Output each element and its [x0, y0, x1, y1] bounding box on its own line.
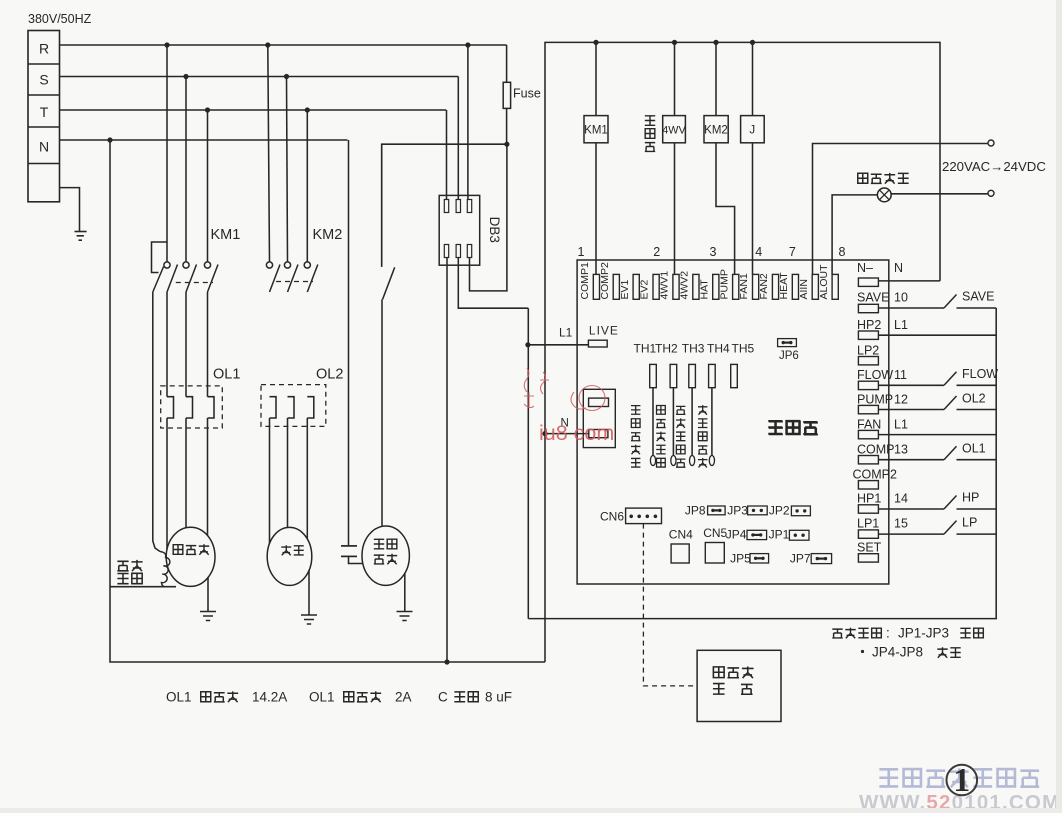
wire phase R [60, 42, 507, 47]
junction dot bottom rail [444, 659, 449, 664]
terminal LP2 row [857, 344, 879, 365]
svg-text:12: 12 [894, 393, 908, 407]
svg-text:15: 15 [894, 517, 908, 531]
svg-text:11: 11 [894, 368, 907, 382]
svg-text:7: 7 [789, 245, 796, 259]
board title 主控板 [768, 421, 817, 434]
jumper JP1 [769, 528, 809, 542]
wire N to capacitor [348, 140, 350, 546]
junction LIVE tap [525, 342, 530, 347]
fuse Fuse [503, 45, 541, 144]
svg-text:LP1: LP1 [857, 517, 879, 531]
svg-text:14: 14 [894, 492, 908, 506]
svg-text:T: T [40, 104, 49, 120]
watermark bottom right (site name) [879, 768, 1039, 787]
wire N top rail and enclosure left [545, 42, 940, 662]
svg-text:JP8: JP8 [685, 504, 706, 518]
ground fan [397, 573, 413, 621]
contactor KM1 main contacts [164, 262, 218, 292]
svg-text:HP1: HP1 [857, 492, 881, 506]
svg-text:4: 4 [755, 245, 762, 259]
jumper JP5 [730, 552, 769, 566]
sensor labels (return water / outlet water / return air / defrost) [631, 405, 707, 467]
svg-text:S: S [39, 72, 48, 88]
wire DB3 mid pin to L1 line [458, 258, 528, 309]
junction dots coil feeds [593, 40, 755, 45]
svg-text:OL1: OL1 [309, 690, 335, 705]
svg-text:JP2: JP2 [769, 504, 790, 518]
connector CN5 [703, 526, 727, 563]
fan switch contact [382, 144, 395, 526]
wire oil-heater branch down [153, 292, 160, 552]
terminal PUMP row [857, 392, 996, 414]
jumper JP2 [769, 504, 811, 518]
svg-text:COMP2: COMP2 [853, 468, 898, 482]
main control board box [577, 260, 889, 584]
svg-text:FAN: FAN [857, 418, 881, 432]
motor compressor [166, 527, 215, 586]
four-way valve label (vertical) [645, 116, 655, 152]
relay coil KM1 [584, 42, 608, 274]
wire DB3 left pin to N rail [446, 258, 448, 663]
wire S to DB3 pin [457, 77, 459, 200]
svg-text:10: 10 [894, 291, 908, 305]
wire phase S [60, 74, 459, 79]
overload relay OL1 [161, 386, 223, 428]
motor water pump [267, 527, 312, 585]
terminal LIVE [528, 324, 619, 348]
svg-text:N–: N– [857, 261, 873, 275]
svg-text:3: 3 [710, 245, 717, 259]
alarm lamp circuit [832, 188, 994, 274]
svg-text:SAVE: SAVE [857, 291, 889, 305]
jumper JP4 [726, 528, 767, 542]
alarm label [858, 173, 909, 184]
svg-text:LP: LP [962, 516, 977, 530]
relay coil 4WV [662, 42, 686, 274]
svg-text:OL1: OL1 [213, 367, 240, 383]
remote controller link (dashed) [643, 524, 697, 686]
svg-text:COMP2: COMP2 [599, 262, 611, 300]
svg-text:COMP: COMP [857, 443, 895, 457]
svg-text:EV1: EV1 [619, 279, 631, 299]
jumper settings note line2 [861, 645, 961, 660]
svg-text:OL1: OL1 [962, 442, 986, 456]
svg-text:JP4: JP4 [726, 528, 747, 542]
motor condenser fan [362, 526, 409, 585]
wire R to DB3 pin [467, 45, 469, 200]
svg-text:L1: L1 [894, 418, 908, 432]
svg-text:8 uF: 8 uF [485, 690, 512, 705]
relay coil J [741, 42, 765, 274]
watermark URL [859, 791, 1060, 813]
terminal HP2 row [857, 318, 996, 339]
svg-text:CN4: CN4 [669, 528, 693, 542]
jumper JP3 [727, 504, 767, 518]
svg-text:L1: L1 [559, 326, 573, 340]
svg-text:FLOW: FLOW [857, 368, 893, 382]
svg-text:CN6: CN6 [600, 510, 624, 524]
sensor terminals TH1-TH5 [634, 342, 755, 466]
svg-text:N: N [39, 139, 49, 155]
relay coil KM2 [704, 42, 735, 274]
svg-text:CN5: CN5 [703, 526, 727, 540]
svg-text:N: N [894, 261, 903, 275]
svg-text:TH1: TH1 [634, 342, 657, 356]
svg-text:OL2: OL2 [962, 392, 986, 406]
jumper settings note line1 [832, 626, 983, 641]
terminal N– row [857, 261, 940, 286]
wire fuse node to fan switch [382, 144, 507, 267]
overload relay OL2 [261, 385, 326, 427]
svg-text:TH2: TH2 [655, 342, 678, 356]
svg-text:2: 2 [653, 245, 660, 259]
svg-text:TH4: TH4 [707, 342, 730, 356]
svg-text:14.2A: 14.2A [252, 690, 287, 705]
wire N left rail down [110, 140, 545, 662]
svg-text:COMP1: COMP1 [579, 262, 591, 300]
terminal HP1 row [857, 491, 996, 514]
svg-text:KM1: KM1 [211, 227, 241, 243]
wire S to KM2 pole2 [287, 77, 288, 263]
svg-text:J: J [749, 125, 755, 137]
svg-text:C: C [438, 690, 448, 705]
terminal block R S T N [28, 31, 60, 202]
svg-text:JP1: JP1 [769, 528, 790, 542]
svg-text:4WV2: 4WV2 [679, 271, 691, 300]
svg-text:JP4-JP8: JP4-JP8 [872, 645, 923, 660]
svg-text:4WV1: 4WV1 [659, 271, 671, 300]
svg-text:PUMP: PUMP [718, 269, 730, 299]
svg-text:2A: 2A [395, 690, 412, 705]
svg-text:FLOW: FLOW [962, 367, 998, 381]
svg-text:KM2: KM2 [704, 125, 728, 137]
wire AC adapter input [813, 140, 995, 274]
svg-text:DB3: DB3 [487, 217, 502, 243]
terminal COMP2 row [853, 468, 898, 490]
svg-text:LP2: LP2 [857, 344, 879, 358]
jumper JP8 [685, 504, 725, 518]
svg-text:HAT: HAT [698, 279, 710, 300]
svg-text:Fuse: Fuse [513, 87, 541, 101]
terminal SET row [857, 541, 882, 563]
svg-text:OL1: OL1 [166, 690, 192, 705]
ground pump [301, 570, 317, 624]
oil heater label [117, 560, 142, 584]
wire R to KM2 pole1 [268, 45, 270, 262]
scan edge artifacts [1056, 0, 1062, 813]
svg-text:LIVE: LIVE [589, 324, 619, 338]
wires OL1 to compressor [167, 418, 208, 550]
svg-text:JP5: JP5 [730, 552, 751, 566]
ground (supply earth) [60, 188, 87, 241]
svg-text:SAVE: SAVE [962, 290, 994, 304]
oil heater tap off pole1 [152, 242, 168, 292]
jumper JP6 [778, 339, 799, 362]
svg-text:iu8 com: iu8 com [539, 421, 614, 445]
svg-text:HP2: HP2 [857, 318, 881, 332]
ground compressor [200, 577, 216, 621]
svg-text:TH3: TH3 [682, 342, 705, 356]
wire DB3 right pin to fuse node [470, 144, 507, 291]
wire T to DB3 pin [446, 110, 448, 200]
terminal block N on board [583, 389, 615, 447]
svg-text:HEAT: HEAT [778, 272, 790, 300]
terminal SAVE row [857, 290, 996, 313]
svg-text:TH5: TH5 [732, 342, 755, 356]
svg-text:JP3: JP3 [727, 504, 748, 518]
connector CN6 [600, 508, 662, 523]
wire N tap to board [542, 418, 588, 437]
wire oil heater to N rail [110, 586, 176, 588]
terminal LP1 row [857, 516, 996, 539]
svg-text:EV2: EV2 [639, 279, 651, 299]
terminal numbers [578, 245, 846, 259]
svg-text:FAN1: FAN1 [738, 273, 750, 299]
svg-text::: : [886, 626, 890, 641]
svg-text:220VAC→24VDC: 220VAC→24VDC [942, 159, 1046, 174]
wire T to KM1 pole3 [207, 110, 209, 262]
wire T to KM2 pole3 [306, 110, 308, 262]
svg-text:JP7: JP7 [790, 552, 811, 566]
terminal FLOW row [857, 367, 998, 390]
svg-text:1: 1 [953, 762, 970, 799]
svg-text:380V/50HZ: 380V/50HZ [28, 12, 92, 26]
svg-text:AIIN: AIIN [798, 279, 810, 299]
oil heater coil [160, 552, 170, 587]
connector DB3 [439, 195, 502, 265]
capacitor C (fan run cap) [341, 546, 363, 564]
circled page number 1 [947, 762, 978, 799]
svg-text:ALOUT: ALOUT [818, 264, 830, 300]
wires OL2 to pump [270, 418, 308, 544]
contactor KM2 main contacts [266, 262, 317, 292]
remote controller box [697, 650, 781, 721]
wire R to KM1 pole1 [166, 45, 168, 262]
wires KM1 to OL1 [167, 292, 208, 397]
svg-text:FAN2: FAN2 [758, 273, 770, 299]
svg-text:OL2: OL2 [316, 367, 343, 383]
svg-text:KM1: KM1 [584, 125, 608, 137]
wire L1 return rail [528, 308, 996, 619]
svg-text:8: 8 [839, 245, 846, 259]
svg-text:13: 13 [894, 443, 908, 457]
wire S to KM1 pole2 [185, 77, 187, 263]
red site watermark (middle) [524, 368, 614, 445]
svg-text:JP1-JP3: JP1-JP3 [898, 626, 949, 641]
terminal COMP row [857, 442, 996, 464]
bottom caption OL settings [166, 690, 512, 705]
jumper JP7 [790, 552, 832, 566]
svg-text:4WV: 4WV [662, 125, 686, 137]
junction fuse output node [504, 142, 509, 147]
svg-text:L1: L1 [894, 318, 908, 332]
svg-text:JP6: JP6 [779, 350, 799, 362]
svg-text:HP: HP [962, 491, 979, 505]
svg-text:1: 1 [578, 245, 585, 259]
svg-text:SET: SET [857, 541, 882, 555]
connector CN4 [669, 528, 693, 564]
svg-text:KM2: KM2 [313, 227, 343, 243]
wire L1 line vertical [527, 308, 529, 618]
svg-text:PUMP: PUMP [857, 393, 893, 407]
wire phase T [60, 107, 447, 112]
terminal FAN row [857, 418, 996, 439]
svg-text:R: R [39, 41, 49, 57]
board top terminal strip [579, 262, 838, 300]
wire neutral N [60, 137, 348, 142]
